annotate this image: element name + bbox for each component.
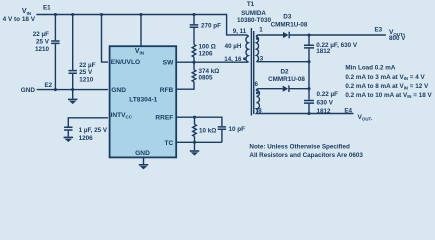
svg-text:LT8304-1: LT8304-1 — [129, 97, 157, 104]
wire C1 branch upper — [54, 15, 56, 41]
svg-text:14, 16: 14, 16 — [224, 56, 242, 63]
junction dots GND rail — [54, 88, 57, 91]
wire bottom cap to VOUT- rail — [308, 104, 310, 114]
capacitor C1 22uF plates — [51, 41, 59, 43]
wire GND rail — [37, 89, 108, 91]
svg-text:3: 3 — [260, 56, 264, 63]
svg-text:E2: E2 — [45, 82, 53, 89]
diode D2 — [283, 86, 289, 92]
svg-text:0.2 mA to 10 mA at VIN = 18 V: 0.2 mA to 10 mA at VIN = 18 V — [345, 92, 432, 99]
wire VOUT- rail — [259, 113, 354, 115]
svg-text:D2: D2 — [280, 69, 289, 76]
wire D2 to mid rail — [289, 88, 309, 90]
svg-text:EN/UVLO: EN/UVLO — [111, 59, 140, 66]
svg-text:GND: GND — [21, 87, 36, 94]
capacitor 10pF plates — [218, 127, 226, 129]
svg-text:270 pF: 270 pF — [201, 23, 221, 30]
svg-text:RREF: RREF — [155, 114, 173, 121]
capacitor 270pF plates — [190, 25, 199, 27]
wire SW — [177, 61, 247, 63]
ground symbol at 1uF cap — [64, 137, 73, 141]
svg-text:TC: TC — [165, 140, 174, 147]
ground symbol at TC node — [190, 151, 199, 155]
wire VIN top rail — [36, 15, 245, 35]
transformer T1 primary coil — [246, 35, 249, 62]
wire VIN pin feed — [140, 15, 142, 46]
ground symbol at input GND rail — [68, 99, 77, 103]
wire RREF node to R10k — [194, 117, 196, 124]
svg-text:25 V: 25 V — [36, 38, 50, 45]
svg-text:RFB: RFB — [160, 87, 174, 94]
svg-text:1210: 1210 — [79, 76, 94, 83]
svg-text:Min Load 0.2 mA: Min Load 0.2 mA — [345, 64, 395, 71]
svg-text:800 V: 800 V — [389, 35, 406, 42]
svg-text:1206: 1206 — [79, 135, 94, 142]
wire TC ground stub — [194, 142, 196, 150]
IC U1 LT8304-1 — [110, 46, 177, 157]
svg-text:D3: D3 — [283, 14, 292, 21]
svg-text:1206: 1206 — [199, 50, 214, 57]
junction dot RREF node — [193, 116, 196, 119]
resistor R 10k — [193, 124, 197, 136]
junction dots output chain — [307, 33, 310, 36]
svg-text:SW: SW — [163, 59, 174, 66]
wire R10k to TC rail — [194, 136, 196, 142]
svg-text:E4: E4 — [344, 107, 352, 114]
wire pin3 to mid node — [259, 61, 309, 63]
svg-text:0.22 µF: 0.22 µF — [317, 91, 339, 98]
svg-text:10 pF: 10 pF — [229, 126, 246, 133]
wire TC — [177, 141, 222, 143]
wire IC GND stub — [143, 158, 145, 164]
resistor R 100 ohm — [192, 45, 196, 58]
svg-text:T1: T1 — [247, 1, 255, 8]
wire output cap chain lower — [308, 89, 310, 100]
svg-text:25 V: 25 V — [79, 69, 93, 76]
svg-text:E3: E3 — [375, 26, 383, 33]
wire pin1 to D3 — [259, 34, 283, 36]
svg-text:All Resistors and Capacitors A: All Resistors and Capacitors Are 0603 — [249, 152, 363, 159]
junction dot TC node — [193, 141, 196, 144]
wire D3 to VOUT+ — [289, 34, 386, 36]
svg-text:10380-T030: 10380-T030 — [237, 17, 271, 24]
wire output cap chain mid — [308, 49, 310, 89]
svg-text:CMMR1U-08: CMMR1U-08 — [268, 76, 305, 83]
svg-text:630 V: 630 V — [317, 100, 334, 107]
phase dot secondary bottom — [256, 91, 259, 94]
svg-text:1 µF, 25 V: 1 µF, 25 V — [79, 127, 108, 134]
wire GND symbol stub left — [72, 90, 74, 99]
wire output cap chain upper — [308, 35, 310, 45]
svg-text:1812: 1812 — [317, 108, 332, 115]
svg-text:4 V to 18 V: 4 V to 18 V — [3, 16, 36, 23]
capacitor 1uF plates — [64, 127, 72, 130]
capacitor C2 22uF plates — [69, 71, 77, 74]
svg-text:GND: GND — [135, 150, 150, 157]
svg-text:0.2 mA to 3 mA at VIN = 4 V: 0.2 mA to 3 mA at VIN = 4 V — [345, 74, 425, 81]
phase dot secondary top — [256, 37, 259, 40]
svg-text:0805: 0805 — [199, 74, 214, 81]
wire pin6 to D2 — [259, 88, 283, 90]
svg-text:Note: Unless Otherwise Specifi: Note: Unless Otherwise Specified — [249, 143, 350, 150]
transformer core lines — [251, 28, 253, 116]
svg-text:22 µF: 22 µF — [33, 31, 49, 38]
wire 10pF lower stub — [221, 130, 223, 142]
svg-text:1: 1 — [259, 27, 263, 34]
svg-text:9, 11: 9, 11 — [233, 28, 247, 35]
svg-text:40 µH: 40 µH — [225, 43, 242, 50]
transformer T1 secondary top coil — [256, 35, 259, 62]
wire C1 branch lower — [54, 44, 56, 90]
diode D3 — [283, 32, 289, 38]
junction dot SW node — [192, 61, 195, 64]
svg-text:22 µF: 22 µF — [79, 62, 95, 69]
wire INTVCC — [68, 118, 108, 127]
wire 270pF branch top — [193, 15, 195, 25]
svg-text:10 kΩ: 10 kΩ — [199, 127, 216, 134]
svg-text:1812: 1812 — [316, 48, 331, 55]
wire C2 branch lower — [72, 74, 74, 90]
ground symbol below IC — [139, 165, 148, 169]
wire C2 branch upper — [72, 15, 74, 70]
wire R100 to SW node — [193, 57, 195, 62]
resistor R 374k — [192, 70, 196, 82]
wire RREF — [177, 117, 222, 126]
junction dots top rail — [54, 13, 57, 16]
wire SW node to R374k — [193, 62, 195, 70]
svg-text:6: 6 — [254, 81, 258, 88]
wire 270pF to R1 — [193, 28, 195, 45]
phase dot primary — [243, 57, 246, 60]
capacitor output bottom 0.22uF plates — [304, 101, 314, 104]
transformer T1 secondary bottom coil — [256, 89, 259, 114]
svg-text:8: 8 — [258, 107, 262, 114]
wire C 1uF lower stub — [67, 131, 69, 137]
svg-text:0.2 mA to 8 mA at VIN = 12 V: 0.2 mA to 8 mA at VIN = 12 V — [345, 83, 429, 90]
svg-text:GND: GND — [111, 87, 126, 94]
svg-text:1210: 1210 — [35, 46, 50, 53]
svg-text:SUMIDA: SUMIDA — [241, 10, 266, 17]
svg-text:E1: E1 — [43, 5, 51, 12]
svg-text:CMMR1U-08: CMMR1U-08 — [271, 22, 308, 29]
wire R374k to RFB — [177, 82, 195, 89]
wire EN/UVLO feed — [102, 15, 109, 63]
capacitor output top 0.22uF plates — [304, 45, 314, 48]
